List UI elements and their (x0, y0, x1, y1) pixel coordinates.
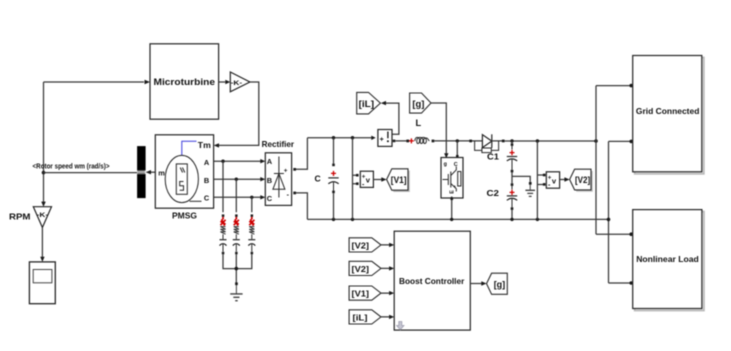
shunt branch 3 (248, 214, 255, 254)
port ammeter out (393, 140, 396, 143)
diode snubber loop (475, 141, 499, 151)
svg-text:Nonlinear Load: Nonlinear Load (636, 254, 699, 264)
port GC 1 (629, 84, 633, 88)
wire top rail right (505, 140, 596, 142)
wire IGBT collector stub (456, 141, 458, 156)
node C-tap (250, 196, 253, 199)
svg-text:[g]: [g] (494, 279, 506, 289)
ground load (235, 282, 238, 285)
node collector (235, 267, 239, 271)
from tag g (top) (410, 93, 431, 113)
port rectifier - (293, 192, 296, 195)
block PMSG (155, 135, 213, 208)
from tag V1 (349, 286, 381, 300)
wire gain to Tm (219, 82, 259, 145)
svg-text:[iL]: [iL] (359, 98, 375, 109)
Boost Controller link arrow (397, 322, 404, 330)
wire arrow into Microturbine (145, 80, 151, 84)
gain RPM (41, 202, 46, 207)
port GC 2 (629, 140, 633, 144)
wire ammeter to inductor (395, 140, 407, 142)
svg-text:<Rotor speed wm (rad/s)>: <Rotor speed wm (rad/s)> (33, 162, 110, 171)
wire rectifier- to bottom rail (296, 193, 308, 220)
block Nonlinear Load (635, 212, 704, 311)
gain K- (torque) (230, 72, 250, 92)
svg-text:B: B (267, 176, 272, 185)
svg-text:C: C (267, 194, 273, 203)
from tag V2 a (349, 238, 381, 252)
wire phase C (214, 196, 261, 198)
svg-text:C1: C1 (487, 152, 499, 162)
ammeter iL (371, 136, 375, 140)
port rectifier + (293, 168, 296, 171)
svg-text:[iL]: [iL] (353, 314, 368, 323)
svg-text:m: m (158, 169, 165, 178)
svg-text:+: + (380, 136, 384, 143)
wire V2 to tag (560, 179, 565, 181)
from tag iL2 (349, 310, 381, 324)
node IGBT emitter rail (450, 218, 453, 221)
svg-text:Grid Connected: Grid Connected (636, 106, 700, 116)
wire V2 measure vertical (537, 141, 544, 219)
shunt branch 1 (220, 214, 227, 254)
node C1 tap (510, 139, 513, 142)
wire controller to goto g (470, 283, 481, 285)
wire rotor speed horizontal (44, 172, 138, 174)
svg-text:C2: C2 (487, 188, 500, 198)
svg-text:-K-: -K- (231, 80, 243, 87)
ground mid (529, 182, 532, 185)
svg-text:g: g (444, 162, 447, 168)
block Grid Connected (635, 58, 704, 174)
wire rectifier+ to top rail (296, 138, 308, 170)
svg-text:RPM: RPM (9, 213, 31, 222)
diode D (469, 140, 472, 143)
voltmeter V1 (356, 174, 359, 177)
svg-text:[g]: [g] (412, 98, 424, 109)
scope (29, 262, 55, 304)
svg-text:B: B (204, 176, 209, 185)
wire C1 to C2 and ground stub (512, 172, 530, 183)
wire iL signal (386, 103, 399, 134)
wire phase B (214, 178, 261, 180)
port NL 2 (629, 281, 633, 285)
goto tag V1 (388, 171, 409, 192)
wire IGBT emitter to bottom rail (451, 197, 453, 220)
wire Microturbine to gain (219, 81, 226, 83)
wire V1 to tag (373, 179, 381, 181)
svg-text:A: A (267, 157, 273, 166)
node V2 bottom tap (536, 218, 539, 221)
node bottom rail end (607, 218, 611, 222)
node IGBT collector tap (456, 139, 459, 142)
svg-text:C: C (204, 194, 210, 203)
wire branch drops (223, 161, 252, 212)
wire branch collector (223, 254, 252, 283)
svg-text:A: A (204, 158, 210, 167)
bus selector bar (137, 146, 146, 198)
wire top rail left (307, 137, 371, 139)
goto tag g2 (487, 273, 508, 294)
node V1 bottom tap (351, 218, 354, 221)
block Microturbine (150, 44, 219, 119)
wire PMSG m to bus bar (151, 171, 155, 173)
wire phase A (214, 160, 261, 162)
from tag V2 b (349, 261, 381, 275)
svg-text:[V1]: [V1] (352, 290, 370, 299)
node A-tap (221, 160, 224, 163)
svg-text:L: L (416, 118, 422, 128)
shunt branch 2 (233, 214, 240, 254)
svg-text:E: E (449, 190, 455, 194)
block IGBT (441, 158, 463, 199)
node V2 top tap (536, 139, 539, 142)
svg-text:Boost Controller: Boost Controller (399, 276, 465, 286)
wire inductor to diode (434, 140, 470, 142)
svg-text:+: + (284, 167, 288, 174)
node V1 top tap (351, 136, 354, 139)
wire bottom rail (307, 218, 608, 220)
goto tag iL (357, 92, 381, 114)
node C2 bottom (510, 218, 513, 221)
voltmeter V2 (543, 174, 546, 177)
goto tag V2 (571, 171, 592, 192)
wire RPM to scope (41, 228, 43, 258)
node rail end right (594, 139, 598, 143)
svg-text:Tm: Tm (198, 140, 211, 150)
svg-text:[V2]: [V2] (352, 242, 370, 251)
wire left riser to loads (596, 86, 630, 235)
wire g to IGBT gate (431, 103, 446, 154)
svg-text:[V2]: [V2] (352, 265, 370, 274)
svg-text:[V1]: [V1] (391, 175, 407, 185)
node rotor-junction (42, 171, 46, 175)
wires from tags to controller (381, 245, 389, 317)
node B-tap (235, 178, 238, 181)
svg-text:[V2]: [V2] (575, 175, 590, 185)
wire right riser to loads (609, 141, 630, 283)
svg-text:Rectifier: Rectifier (262, 139, 295, 149)
svg-text:C: C (315, 173, 321, 183)
svg-text:PMSG: PMSG (172, 211, 197, 220)
wire V1 measure vertical (353, 138, 359, 220)
svg-text:Microturbine: Microturbine (154, 76, 216, 87)
svg-text:-K-: -K- (37, 212, 49, 219)
port NL 1 (629, 232, 633, 236)
wire feedback vertical left (44, 82, 145, 202)
node C bottom (332, 218, 335, 221)
node C top (332, 136, 335, 139)
block Boost Controller (394, 231, 470, 330)
